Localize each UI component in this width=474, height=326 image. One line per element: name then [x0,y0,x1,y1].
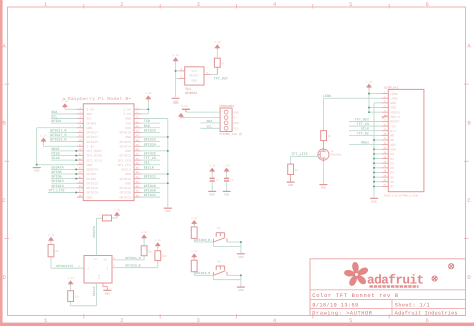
wire J1 pin17 to +3.3V [44,145,78,147]
svg-text:LEDK: LEDK [323,94,332,99]
junction J1 pin21 [75,155,77,157]
svg-text:R11: R11 [75,296,80,299]
svg-text:GND: GND [165,210,171,213]
ground symbol below DISP1 [370,197,378,199]
adafruit logo flower [344,262,368,286]
svg-text:GPIO4: GPIO4 [87,121,97,125]
svg-text:GND: GND [238,289,244,292]
wire DISP1 pin13 to ground rail [374,148,382,150]
wire DISP1 pin19 to ground rail [374,176,382,178]
display ground rail [373,103,375,198]
wire SCL [51,118,77,120]
wire TFT_RST to DISP1 [349,120,382,122]
wire GPIO27 [50,136,78,138]
resistor R1 reset pullup [214,58,220,67]
resistor R6 gate pulldown [288,164,294,174]
svg-text:GPIO24_R: GPIO24_R [125,256,140,260]
wire EEDATA [51,168,77,170]
svg-text:GPIO22_R: GPIO22_R [50,138,66,143]
connector J1 body [83,104,134,201]
ground symbol below IC1 [172,97,180,99]
power +3.3V arrow above R1 [214,44,220,48]
junction J1 pin19 [75,150,77,152]
wire DISP1 pin16 to ground rail [374,162,382,164]
wire TFT_LITE down to R6 [290,156,292,164]
connector CONN1 body [220,108,232,132]
svg-text:2B: 2B [104,259,108,262]
bottom page border bar [0,323,474,326]
resistor R7 EEDATA pullup [103,215,112,221]
ground symbol left rail [33,167,41,169]
svg-text:3: 3 [197,1,200,8]
display connector DISP1 body [388,89,424,191]
svg-text:D4: D4 [390,171,394,175]
svg-text:3.3V: 3.3V [214,41,221,44]
wire DISP1 pin1 to +3.3V rail [369,93,382,95]
junction right ground rail pin14 [167,136,169,138]
svg-text:MOSI: MOSI [361,141,369,146]
svg-text:MOSI: MOSI [52,147,60,152]
svg-text:DISPLAY1: DISPLAY1 [384,86,399,89]
svg-text:GPIO17: GPIO17 [87,131,99,135]
wire GPIO17 [50,131,78,133]
svg-text:R10: R10 [162,255,167,258]
svg-text:RXD: RXD [125,126,131,130]
svg-text:GPIO16: GPIO16 [120,186,132,190]
svg-text:GPIO24: GPIO24 [120,144,132,148]
svg-text:D6: D6 [390,180,394,184]
svg-text:SPI_MISO: SPI_MISO [87,154,102,158]
svg-text:SDA: SDA [233,122,239,125]
junction at S1 [240,241,242,243]
svg-text:GND: GND [125,181,131,185]
svg-text:Adafruit Industries: Adafruit Industries [395,311,458,317]
junction ground rail pin21 [373,185,375,187]
svg-text:LEDA: LEDA [390,92,398,96]
wire capacitor C1 to ground [211,181,213,191]
svg-text:GPIO21: GPIO21 [144,193,156,198]
svg-text:GPIO20: GPIO20 [120,191,132,195]
svg-text:GPIO6: GPIO6 [52,175,62,180]
svg-text:GPIO27: GPIO27 [87,135,99,139]
ground symbol below Q1 [319,184,327,186]
svg-text:TFT_RST: TFT_RST [214,77,228,82]
svg-text:GND: GND [371,200,377,203]
junction ground rail pin13 [373,148,375,150]
svg-text:3.3V: 3.3V [209,164,216,167]
svg-text:GPIO12: GPIO12 [120,177,132,181]
junction ground rail pin20 [373,181,375,183]
ground symbol below R6 [287,181,295,183]
wire GPIO5 [51,173,77,175]
wire J1 GND pin30 to right ground rail [141,173,168,175]
junction J1 pin23 [75,159,77,161]
svg-text:SDA: SDA [51,110,58,115]
resistor pullup for S1 [191,227,197,239]
wire GPIO19 [51,187,77,189]
wire S1 to ground [227,241,241,243]
wire DISP1 pin20 to ground rail [374,181,382,183]
svg-text:Raspberry Pi Model B+: Raspberry Pi Model B+ [68,96,132,102]
svg-text:R2: R2 [328,135,332,138]
svg-text:3.3V: 3.3V [40,134,47,137]
ground symbol below IC2 [103,289,111,291]
wire RXD [141,127,160,129]
svg-text:TFT_CS: TFT_CS [144,156,156,161]
wire GPIO16 [141,187,160,189]
svg-text:9/18/19 13:59: 9/18/19 13:59 [312,303,358,309]
resistor R9 [141,246,147,256]
ground symbol below S1 [237,253,245,255]
title block column line [391,300,393,316]
svg-text:3.3V: 3.3V [67,277,74,280]
svg-text:GPIO19: GPIO19 [87,186,99,190]
wire GPIO6 [51,178,77,180]
svg-text:GPIO23_B: GPIO23_B [125,264,140,268]
svg-text:R6: R6 [295,169,299,172]
wire SDA [51,113,77,115]
resistor R11 EECLK pullup [68,291,74,302]
ground symbol right rail [164,207,172,209]
power +3.3V arrow above R11 [68,280,74,284]
svg-text:R1: R1 [222,62,226,65]
svg-text:3.3V: 3.3V [114,209,121,212]
svg-text:STEMMA_I2C_QT: STEMMA_I2C_QT [219,133,243,136]
svg-text:SCL: SCL [51,115,57,120]
junction J1 pin27 [75,168,77,170]
svg-text:SPI_MOSI: SPI_MOSI [87,149,102,153]
supervisor IC1 body [185,67,204,85]
wire J1 GND pin25 to left ground rail [37,164,77,166]
svg-text:EEDATA: EEDATA [92,226,96,238]
power +3.3V arrow above R8 [48,237,54,241]
IC1 left pin stubs [179,70,185,72]
transistor Q1 mosfet [318,149,329,160]
junction +3.3V rail pin1 [368,93,370,95]
wire DISP1 GND pin3 to rail [374,102,382,104]
svg-text:RESET: RESET [190,74,200,78]
power +3.3V arrow above IC1 [173,57,179,61]
wire GPIO20 [141,191,160,193]
svg-text:GND: GND [125,135,131,139]
svg-text:RXD: RXD [144,124,150,129]
svg-text:/CS: /CS [390,124,396,128]
wire capacitor C2 to ground [226,181,228,191]
svg-text:LEDK: LEDK [390,96,398,100]
svg-text:GND: GND [321,187,327,190]
display connector DISP1 pin stubs [382,93,389,95]
svg-text:2: 2 [120,317,123,324]
svg-text:TFT_CS: TFT_CS [357,122,369,127]
wire up to R8 [50,257,52,268]
IC1 right pin stub [204,74,211,76]
connector J1 left pin stubs [77,108,83,110]
power arrow above capacitor C1 [209,168,215,172]
power +3.3V arrow above DISP1 [366,84,372,88]
junction ground rail pin14 [373,153,375,155]
capacitor C2 [226,172,228,178]
svg-text:5.0V: 5.0V [123,112,131,116]
svg-text:GND: GND [87,195,93,199]
svg-text:GND: GND [87,163,93,167]
svg-text:GND: GND [34,170,40,173]
svg-text:DISP_LCD_KYTMA_1.8IN: DISP_LCD_KYTMA_1.8IN [384,195,418,198]
svg-text:GPIO21: GPIO21 [120,195,132,199]
wire GPIO18 [141,131,160,133]
svg-text:GPIO18: GPIO18 [144,128,156,133]
svg-text:GND: GND [173,102,179,105]
svg-text:TFT_LITE: TFT_LITE [291,152,307,157]
svg-text:D5: D5 [390,175,394,179]
wire GPIO25 [141,155,160,157]
wire TFT_CS to DISP1 [349,125,382,127]
svg-text:D3: D3 [390,166,394,170]
wire up to R9 [143,256,145,260]
ground symbol below S2 [237,286,245,288]
svg-text:GPIO5: GPIO5 [52,170,62,175]
wire J1 GND pin14 to right ground rail [141,136,168,138]
svg-text:5.0V: 5.0V [181,105,188,108]
switch S2 [213,272,215,275]
wire EEDATA to pullup [97,217,103,219]
svg-text:AP4682: AP4682 [185,91,197,96]
wire +3.3V rail into IC1 pins [175,62,177,97]
frame row ticks right [464,83,469,85]
junction right ground rail pin34 [167,182,169,184]
registration mark 2 [449,264,454,269]
wire J1 GND pin9 to left ground rail [37,127,77,129]
wire TFT_LITE [48,191,77,193]
svg-text:A2: A2 [94,258,98,261]
svg-text:EEDATA: EEDATA [52,165,65,170]
svg-text:GPIO22: GPIO22 [87,140,99,144]
power +3.3V arrow at J1 pin1 [62,103,68,107]
registration mark 1 [432,276,437,281]
svg-text:R9: R9 [148,250,152,253]
svg-text:3.3V: 3.3V [141,231,148,234]
wire EECLK from IC2 bottom [96,283,98,306]
svg-text:3.3V: 3.3V [172,54,179,57]
svg-text:SCLK: SCLK [361,127,370,132]
power +3.3V arrow right of R7 [114,212,120,216]
wire CONN1 SCL [201,127,221,129]
title block outline [310,259,466,316]
svg-text:SPI_SCLK: SPI_SCLK [87,158,102,162]
junction J1 pin29 [75,173,77,175]
svg-text:3.3V: 3.3V [155,239,162,242]
svg-text:EECLK: EECLK [92,286,96,296]
resistor R8 [48,245,54,257]
power +3.3V arrow above S2 resistor [191,253,197,257]
ground symbol at CONN1 [182,108,190,110]
junction ground rail pin15 [373,158,375,160]
svg-text:EEDATA: EEDATA [87,168,99,172]
svg-text:3.3V: 3.3V [87,108,95,112]
svg-text:SDI: SDI [390,143,396,147]
svg-text:3.3V: 3.3V [366,80,373,83]
power +3.3V arrow above R10 [155,242,161,246]
svg-text:RD: RD [390,138,394,142]
svg-text:3.3V: 3.3V [48,234,55,237]
svg-text:RESET: RESET [390,120,400,124]
wire SCLK to DISP1 [349,130,382,132]
svg-text:DMG3404: DMG3404 [331,153,342,156]
svg-text:D0: D0 [390,152,394,156]
svg-text:S1: S1 [217,227,221,230]
wire TFT_DC to DISP1 [349,134,382,136]
wire DISP1 pin15 to ground rail [374,158,382,160]
wire MOSI [51,150,77,152]
wire S2 to ground [227,274,241,276]
wire J1 pin1 to +3.3V [65,108,77,110]
svg-text:TFT_DC: TFT_DC [357,131,369,136]
svg-text:2: 2 [120,1,123,8]
wire GPIO4 [51,122,77,124]
wire CONN1 V+ [181,117,220,119]
svg-text:SCL: SCL [87,117,93,121]
svg-text:S2: S2 [217,260,221,263]
wire GPIO23 [141,141,160,143]
right ground rail [167,119,169,208]
svg-text:GPIO23_B: GPIO23_B [195,238,210,242]
svg-text:GPIO26: GPIO26 [87,191,99,195]
svg-text:GND: GND [125,172,131,176]
wire LEDK [324,97,382,99]
power +3.3V arrow above S1 resistor [191,220,197,224]
wire +3.3V rail at DISP1 [368,88,370,112]
svg-text:GPIO18: GPIO18 [120,131,132,135]
wire DISP1 pin4 to +3.3V rail [369,107,382,109]
svg-text:D/C: D/C [390,129,396,133]
svg-text:SDA: SDA [207,119,213,123]
wire LEDK down to Q1 drain [323,98,325,130]
frame column ticks bottom [83,314,85,319]
resistor R10 [155,251,161,261]
svg-text:SCLK: SCLK [52,156,61,161]
ground symbol below C2 [223,190,231,192]
svg-text:C1: C1 [216,179,220,182]
junction J1 pin31 [75,178,77,180]
wire DISP1 pin21 to ground rail [374,185,382,187]
svg-text:C2: C2 [230,179,234,182]
svg-text:GND: GND [105,292,111,295]
svg-text:GPIO24_R: GPIO24_R [195,271,210,275]
wire DISP1 pin5 to +3.3V rail [369,111,382,113]
wire R7 to +3.3V [112,217,118,219]
svg-text:SDO: SDO [390,147,396,151]
junction J1 pin37 [75,192,77,194]
wire CE1 [141,164,160,166]
svg-text:5.0V: 5.0V [145,92,152,95]
svg-text:SPI_CE0: SPI_CE0 [118,158,131,162]
wire Q1 source to ground [322,162,324,185]
wire TFT_RST from IC1 [211,74,218,76]
wire GPIO22 into IC2 pin2 [51,267,84,269]
wire GPIO21 [141,196,160,198]
capacitor C1 [211,172,213,178]
svg-text:CE1: CE1 [144,161,150,166]
svg-text:GND: GND [238,256,244,259]
junction right ground rail pin30 [167,173,169,175]
svg-text:GPIO13: GPIO13 [52,179,64,184]
junction ground rail pin16 [373,162,375,164]
left rail to ground [36,165,38,167]
svg-text:R8: R8 [55,250,59,253]
wire SCLK [51,159,77,161]
wire TXD [141,122,160,124]
junction ground rail pin19 [373,176,375,178]
wire +5V rail to J1 pins 2 and 4 [147,100,149,114]
connector CONN1 pin circles [224,110,228,114]
svg-text:GPIO20: GPIO20 [144,188,156,193]
svg-text:IC2: IC2 [98,274,101,279]
left page border bar [0,0,3,326]
frame column ticks top [83,4,85,9]
svg-text:GPIO24: GPIO24 [144,142,156,147]
svg-text:5.0V: 5.0V [123,108,131,112]
junction at S2 [240,274,242,276]
svg-text:GND: GND [87,126,93,130]
junction right ground rail pin20 [167,150,169,152]
svg-text:WR: WR [390,134,394,138]
svg-text:GPIO22(R): GPIO22(R) [56,264,73,268]
ground symbol below C1 [208,190,216,192]
svg-text:GPIO25: GPIO25 [120,154,132,158]
svg-text:D1: D1 [390,157,394,161]
junction IC1 vcc [175,70,177,72]
resistor R2 backlight [321,131,327,141]
svg-text:VDDIO: VDDIO [390,110,400,114]
frame row ticks left [5,83,10,85]
switch S1 [213,239,215,242]
svg-text:GPIO17_R: GPIO17_R [50,128,66,133]
svg-text:D7: D7 [390,185,394,189]
junction +3.3V rail pin4 [368,107,370,109]
svg-text:TFT_RST: TFT_RST [355,117,369,122]
wire CONN1 GND [186,111,220,113]
power +5.0V arrow at CONN1 [178,113,184,117]
svg-text:5: 5 [349,1,352,8]
wire TFT_CS [141,159,160,161]
svg-text:SPI_CE1: SPI_CE1 [118,163,131,167]
svg-text:6: 6 [426,1,429,8]
adafruit logo industries strip [370,285,419,288]
svg-text:3.3V: 3.3V [191,250,198,253]
svg-text:MISO: MISO [52,152,60,157]
svg-text:GPIO5: GPIO5 [87,172,97,176]
wire J1 GND pin34 to right ground rail [141,182,168,184]
svg-text:GPIO12: GPIO12 [144,175,156,180]
svg-text:GPIO23: GPIO23 [120,140,132,144]
wire J1 GND pin20 to right ground rail [141,150,168,152]
svg-text:Color TFT Bonnet rev B: Color TFT Bonnet rev B [312,293,399,299]
svg-text:SDA: SDA [87,112,93,116]
svg-text:SCL: SCL [233,128,239,131]
wire GPIO12 [141,178,160,180]
resistor pullup for S2 [191,260,197,272]
svg-text:VDD: VDD [390,106,396,110]
svg-text:TXD: TXD [125,121,131,125]
svg-text:GPIO25: GPIO25 [144,152,156,157]
wire DISP1 pin14 to ground rail [374,153,382,155]
svg-text:V+: V+ [233,117,237,120]
wire CONN1 SDA [201,122,221,124]
svg-text:GPIO23: GPIO23 [144,138,156,143]
svg-text:5: 5 [349,317,352,324]
wire GPIO24_R to S2 [194,274,213,276]
svg-text:GPIO4: GPIO4 [51,119,61,124]
wire R1 to +3.3V [216,49,218,59]
